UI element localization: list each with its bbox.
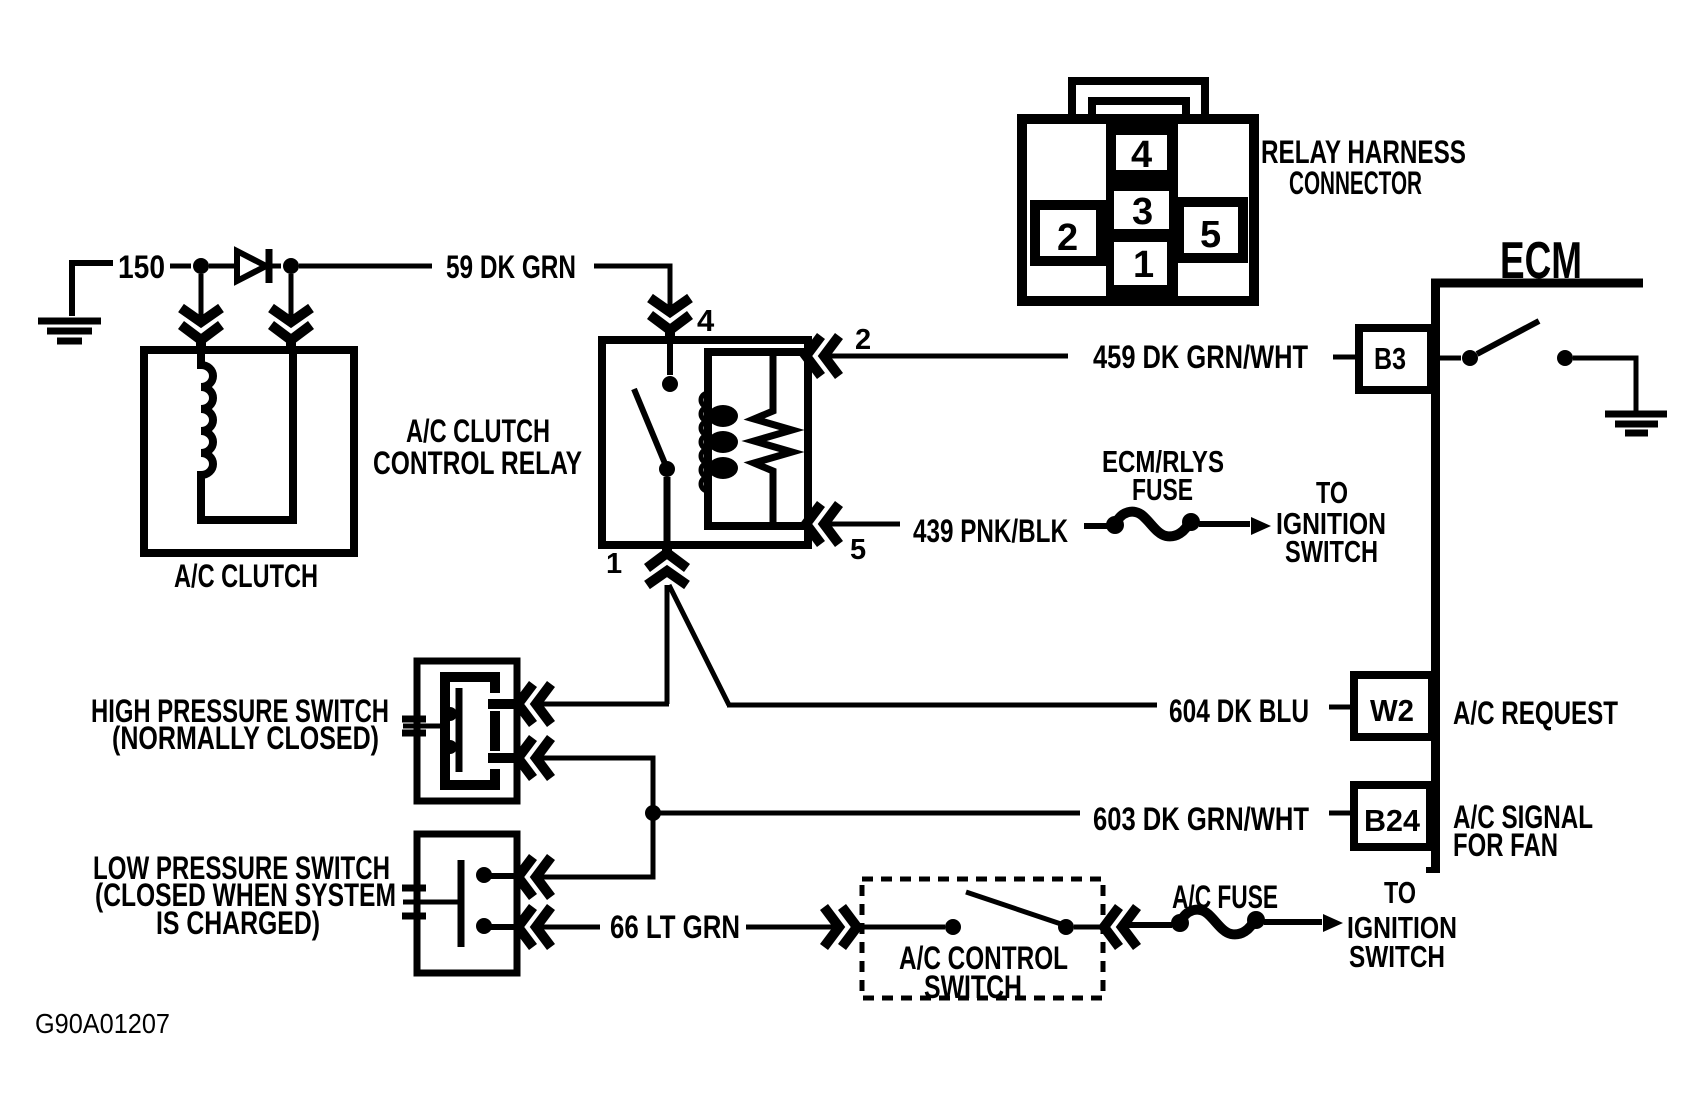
wire to A/C fuse: [1124, 922, 1172, 928]
connector arrow into relay pin 4: [650, 298, 690, 340]
svg-text:IS CHARGED): IS CHARGED): [156, 905, 320, 941]
wire 459 DK GRN/WHT left: [826, 354, 1068, 359]
svg-text:66 LT GRN: 66 LT GRN: [610, 909, 740, 945]
svg-text:3: 3: [1132, 191, 1153, 233]
relay inner coil box: [708, 352, 808, 526]
wire 439 to fuse: [1084, 523, 1108, 529]
svg-text:G90A01207: G90A01207: [35, 1008, 170, 1039]
connector arrow into A/C control switch: [824, 907, 857, 947]
svg-text:A/C FUSE: A/C FUSE: [1172, 879, 1278, 915]
ECM internal wire from B3: [1440, 356, 1461, 361]
relay pin 2 connector arrow: [806, 336, 839, 376]
HP contact blobs: [443, 707, 457, 721]
svg-text:5: 5: [850, 534, 866, 566]
svg-text:FOR FAN: FOR FAN: [1453, 827, 1558, 863]
ECM internal wire to ground: [1573, 358, 1636, 411]
svg-text:4: 4: [697, 303, 715, 338]
svg-text:SWITCH: SWITCH: [924, 969, 1022, 1005]
relay harness connector inner tab: [1092, 101, 1186, 121]
relay harness connector outer tab: [1072, 81, 1205, 121]
node B junction dot: [283, 258, 299, 274]
svg-text:SWITCH: SWITCH: [1285, 534, 1378, 569]
LP contact dots: [476, 867, 492, 883]
fuse F2 wavy element: [1180, 910, 1255, 935]
relay coil bumps: [708, 405, 738, 427]
svg-text:1: 1: [1133, 244, 1154, 286]
wire diode to node B: [271, 264, 281, 269]
svg-text:A/C REQUEST: A/C REQUEST: [1453, 695, 1618, 731]
relay moving contact dot: [659, 461, 675, 477]
svg-text:4: 4: [1131, 134, 1152, 176]
HP diaphragm bars: [402, 719, 426, 733]
wire diagonal from pin 1 to 604 run: [669, 585, 729, 705]
svg-text:604 DK BLU: 604 DK BLU: [1169, 693, 1309, 729]
svg-text:2: 2: [1057, 217, 1078, 259]
svg-text:2: 2: [855, 324, 871, 356]
ECM terminal B3 box: [1359, 328, 1431, 390]
connector pin 4 cavity: [1116, 135, 1167, 170]
relay pin 1 connector arrow below box: [647, 543, 687, 585]
wire 59 DK GRN left segment: [299, 264, 432, 269]
LP top connector arrow: [518, 857, 551, 897]
node A junction dot: [193, 258, 209, 274]
A/C control switch dashed box: [862, 879, 1103, 998]
fuse F1 wavy element: [1115, 512, 1190, 537]
wire 59 DK GRN right segment to relay pin 4: [594, 266, 670, 308]
relay pin 5 connector arrow: [806, 504, 839, 544]
relay pin 1 wire inside box: [664, 477, 671, 545]
wire 604 dash to W2: [1329, 705, 1352, 710]
ground G2 (inside ECM): [1605, 414, 1667, 433]
relay box (A/C clutch control relay): [602, 340, 808, 545]
wire node C down to LP top: [538, 813, 653, 877]
svg-text:439 PNK/BLK: 439 PNK/BLK: [913, 513, 1068, 549]
arrowhead to ignition switch (lower): [1323, 914, 1343, 932]
control switch contact dot: [1058, 919, 1074, 935]
connector pin 5 box: [1179, 202, 1243, 258]
svg-text:FUSE: FUSE: [1132, 472, 1193, 507]
svg-text:459 DK GRN/WHT: 459 DK GRN/WHT: [1093, 339, 1308, 375]
wire node A to diode D1: [209, 264, 238, 269]
ECM terminal B24 box: [1354, 785, 1430, 847]
HP terminal stubs: [488, 704, 519, 758]
connector arrow into clutch right: [271, 308, 311, 350]
wire HP bottom to junction: [538, 758, 653, 813]
wire node B down to clutch connector: [289, 274, 294, 318]
svg-text:CONNECTOR: CONNECTOR: [1289, 165, 1422, 201]
wire to high pressure switch top: [538, 702, 669, 707]
LP plunger: [458, 860, 465, 947]
clutch coil return wire: [289, 354, 297, 524]
connector pin 2 box: [1035, 205, 1101, 261]
LP diaphragm bars: [402, 888, 426, 916]
HP top connector arrow: [518, 684, 551, 724]
high pressure switch box: [417, 661, 517, 801]
ground G1 (top left): [72, 263, 113, 316]
svg-text:1: 1: [606, 548, 622, 580]
connector center strip: [1106, 119, 1178, 301]
low pressure switch box: [417, 834, 517, 973]
svg-text:(NORMALLY CLOSED): (NORMALLY CLOSED): [112, 720, 379, 756]
connector arrow after control switch: [1104, 907, 1137, 947]
arrowhead to ignition switch (upper): [1251, 517, 1271, 535]
LP terminal stubs: [484, 876, 519, 927]
connector pin 1 cavity: [1114, 242, 1167, 285]
ECM switch contact dot: [1557, 350, 1573, 366]
connector arrow into clutch left: [181, 308, 221, 350]
junction dot node C: [645, 805, 661, 821]
wire pin1 down to HP junction: [665, 585, 670, 704]
HP bottom connector arrow: [518, 738, 551, 778]
fuse F1 ECM/RLYS dots: [1106, 516, 1124, 534]
LP bottom connector arrow: [518, 907, 551, 947]
wire into control switch: [862, 925, 945, 930]
HP diaphragm lead: [403, 724, 446, 729]
HP plunger: [456, 688, 463, 772]
wire 439 PNK/BLK stub from pin 5: [826, 522, 900, 527]
svg-text:A/C CLUTCH: A/C CLUTCH: [174, 558, 318, 594]
svg-text:CONTROL RELAY: CONTROL RELAY: [373, 445, 582, 481]
ECM switch pivot dot: [1462, 350, 1478, 366]
wire 459 dash to B3: [1333, 355, 1357, 360]
A/C clutch box: [144, 350, 354, 553]
relay fixed contact dot: [662, 376, 678, 392]
svg-text:B3: B3: [1374, 341, 1406, 376]
wire fuse to ignition arrow: [1199, 521, 1250, 527]
wire node A down to clutch connector: [199, 274, 204, 318]
ECM terminal W2 box: [1354, 675, 1432, 737]
svg-text:ECM: ECM: [1500, 232, 1582, 290]
svg-text:SWITCH: SWITCH: [1349, 939, 1445, 974]
relay pin 4 stub: [667, 344, 673, 375]
ECM top boundary line: [1431, 279, 1643, 288]
svg-text:59 DK GRN: 59 DK GRN: [446, 249, 576, 285]
svg-text:TO: TO: [1384, 875, 1416, 910]
ECM left boundary line: [1431, 283, 1440, 872]
wire 150 to node A: [170, 264, 191, 269]
ECM switch arm: [1477, 321, 1539, 354]
LP diaphragm lead: [403, 900, 458, 905]
relay coil left scallops: [701, 393, 708, 491]
wire 603 dash to B24: [1329, 811, 1352, 816]
svg-text:B24: B24: [1364, 803, 1421, 838]
diode D1: [237, 251, 266, 281]
svg-text:TO: TO: [1316, 475, 1348, 510]
control switch arm: [966, 892, 1064, 925]
fuse F2 A/C FUSE dots: [1171, 914, 1189, 932]
wire 66 LT GRN to control switch: [746, 925, 840, 930]
svg-text:150: 150: [118, 249, 165, 285]
control switch pivot dot: [945, 919, 961, 935]
wire 604 DK BLU horizontal: [727, 703, 1157, 708]
wire control switch out: [1074, 925, 1104, 930]
relay resistor R1: [754, 356, 792, 522]
wire 66 LT GRN left stub: [538, 925, 600, 930]
svg-text:A/C CLUTCH: A/C CLUTCH: [406, 413, 550, 449]
relay switch arm: [634, 389, 666, 466]
wire fuse to ignition arrow (lower): [1264, 919, 1322, 925]
svg-text:W2: W2: [1370, 693, 1414, 728]
relay harness connector body: [1022, 119, 1254, 301]
clutch coil L1: [201, 354, 293, 520]
wire 603 DK GRN/WHT horizontal: [653, 811, 1080, 816]
HP inner bracket: [445, 677, 495, 785]
connector pin 3 cavity: [1114, 191, 1169, 229]
svg-text:5: 5: [1200, 214, 1221, 256]
svg-text:603 DK GRN/WHT: 603 DK GRN/WHT: [1093, 801, 1309, 837]
